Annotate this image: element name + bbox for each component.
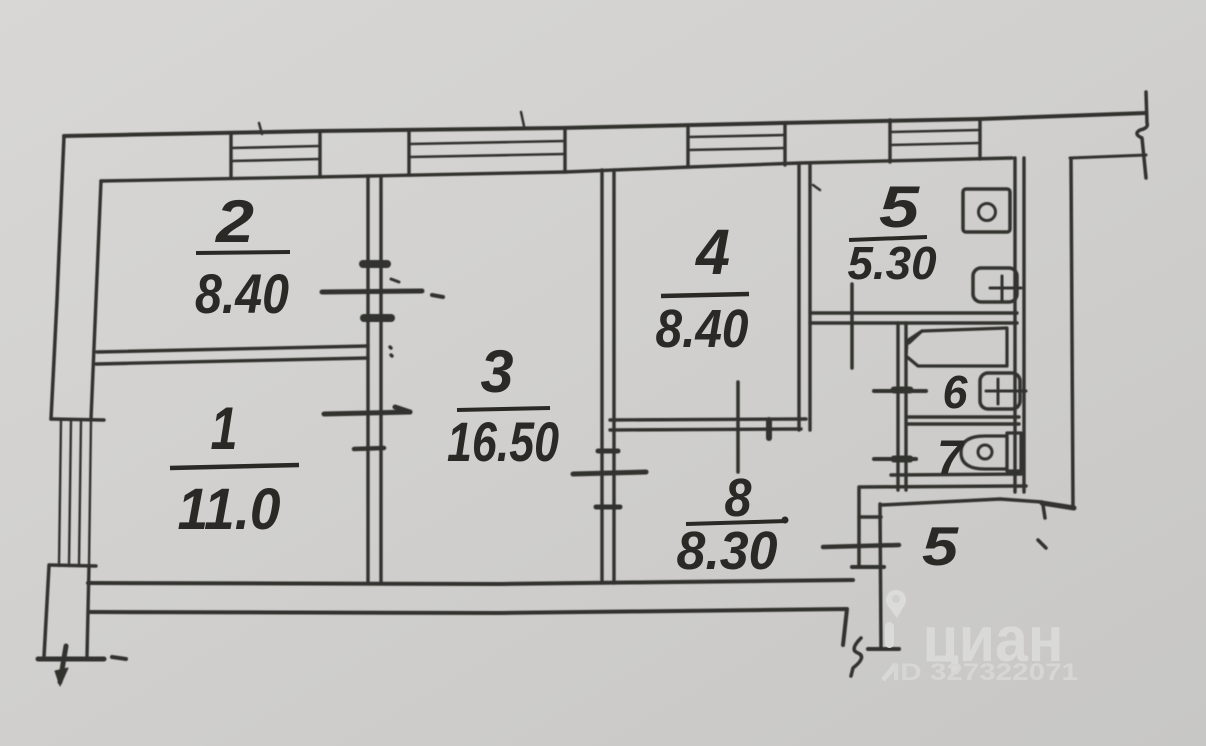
- wall: right of rooms 5,6,7 line a: [1013, 158, 1016, 492]
- svg-text:11.0: 11.0: [178, 477, 281, 542]
- wall: rooms 3|4,8 line a: [600, 170, 603, 583]
- door tick room 7: [874, 457, 916, 461]
- window W3 (room 4): [688, 123, 785, 167]
- hall wall end tick: [868, 647, 899, 651]
- svg-text:2: 2: [215, 188, 254, 255]
- wall: left inner vertical (upper): [91, 181, 101, 419]
- room label 1 / 11.0: [170, 395, 299, 542]
- wall: bottom outer upper line: [88, 580, 853, 584]
- wall: room 4 bottom upper line: [610, 419, 806, 420]
- joint blob on central wall (lower): [364, 314, 391, 322]
- entrance arrowhead: [55, 668, 68, 686]
- wall: kitchen bottom lower line: [810, 321, 1017, 324]
- door tick room 4: [738, 382, 769, 472]
- svg-text:7: 7: [937, 432, 965, 485]
- wall: stub bridge lower: [852, 565, 884, 569]
- window in left wall (room 1): [49, 419, 104, 566]
- wall: left of rooms 6,7 line b: [904, 323, 907, 490]
- wall break mark (top right): [1137, 92, 1147, 178]
- window W2 (room 3): [409, 129, 565, 175]
- room label 4 / 8.40: [656, 216, 750, 359]
- svg-text:6: 6: [943, 366, 968, 418]
- svg-text:5: 5: [879, 175, 920, 240]
- wall: room 4 bottom lower line: [610, 429, 801, 430]
- joint blob on wall 3|8 (lower): [596, 505, 620, 510]
- wall: central (rooms 1,2 | 3) line b: [379, 176, 382, 583]
- svg-text:5: 5: [922, 515, 960, 577]
- door tick rooms 2-3: [322, 279, 443, 297]
- wall: left of rooms 6,7 line a: [896, 323, 899, 490]
- washbasin symbol (room 6): [980, 373, 1026, 409]
- svg-text:3: 3: [481, 338, 514, 405]
- svg-text:8: 8: [725, 468, 752, 528]
- survey tick above top wall (left): [259, 123, 262, 134]
- stove symbol (kitchen): [963, 189, 1010, 232]
- wall: room 7 bottom upper line: [891, 474, 1021, 475]
- wall: hall 5 left vertical: [880, 504, 881, 648]
- room label 2 / 8.40: [195, 188, 290, 325]
- room label 5 / 5.30 (kitchen): [848, 175, 937, 289]
- wall: right of rooms 5,6,7 line b: [1022, 158, 1025, 492]
- door tick rooms 1-3: [324, 407, 410, 449]
- wall: rooms 4|5 line a: [797, 164, 800, 430]
- svg-text:16.50: 16.50: [447, 410, 559, 473]
- door tick kitchen 5: [850, 284, 854, 368]
- svg-text:ID 327322071: ID 327322071: [892, 659, 1078, 686]
- svg-text:8.40: 8.40: [195, 262, 289, 325]
- wall: kitchen bottom upper line: [810, 311, 1017, 314]
- wall: rooms 3|4,8 line b: [612, 170, 615, 583]
- corridor wall end squiggle: [851, 638, 862, 676]
- wall: rooms 1|2 divider lower line: [96, 358, 368, 364]
- wall: room 7 bottom lower line: [860, 486, 1026, 487]
- wall: left outer vertical (lower): [44, 566, 49, 657]
- wall: top inner line (room side): [101, 158, 1012, 181]
- sink symbol (kitchen): [973, 268, 1021, 302]
- bathtub symbol (room 6): [906, 328, 1007, 366]
- small dash near kitchen top-left: [813, 185, 820, 190]
- small dash near hall corner: [1038, 540, 1046, 548]
- wall: central (rooms 1,2 | 3) line a: [366, 176, 369, 583]
- joint blob on wall 3|8 (upper): [598, 449, 618, 454]
- svg-text:1: 1: [211, 395, 238, 462]
- svg-text:5.30: 5.30: [848, 237, 937, 289]
- wall: corridor inner line top-right: [1070, 155, 1146, 158]
- building corner bottom-right: [1042, 503, 1074, 518]
- survey tick above top wall (right): [521, 112, 524, 126]
- wall: corridor|hall stub (upper): [857, 487, 861, 567]
- svg-text:8.40: 8.40: [656, 299, 749, 359]
- small dots right of rooms 1|2 divider: [390, 347, 391, 348]
- wall: stub bridge upper: [859, 515, 881, 518]
- door tick room 6: [874, 390, 926, 391]
- wall: left outer vertical (upper): [51, 136, 64, 419]
- wall: bottom outer lower line with corner: [89, 609, 847, 645]
- wall: rooms 4|5 line b: [808, 164, 811, 430]
- room label 8 / 8.30 (corridor): [677, 468, 789, 581]
- svg-text:4: 4: [694, 216, 730, 288]
- entrance arrow mark bottom-left: [38, 646, 126, 682]
- wall: rooms 6|7 divider upper line: [908, 415, 1019, 418]
- wall: hall 5 top line: [881, 499, 1042, 505]
- wall: rooms 1|2 divider upper line: [97, 346, 368, 352]
- wall: top outer line: [64, 113, 1146, 136]
- window W4 (kitchen 5): [890, 119, 980, 162]
- joint blob on central wall (upper): [363, 260, 387, 268]
- wall: left inner vertical (lower stub): [87, 566, 89, 656]
- room label 3 / 16.50: [447, 338, 559, 473]
- window W1 (room 2): [231, 132, 320, 178]
- svg-text:8.30: 8.30: [677, 521, 778, 581]
- wall: right outer vertical: [1071, 160, 1073, 508]
- toilet symbol (room 7): [961, 433, 1021, 471]
- watermark: CIAN logo pin + text + ID: [883, 590, 1078, 686]
- door tick hall 5: [823, 545, 899, 547]
- wall: rooms 6|7 divider lower line: [908, 422, 1019, 425]
- door tick rooms 3-8: [573, 472, 646, 474]
